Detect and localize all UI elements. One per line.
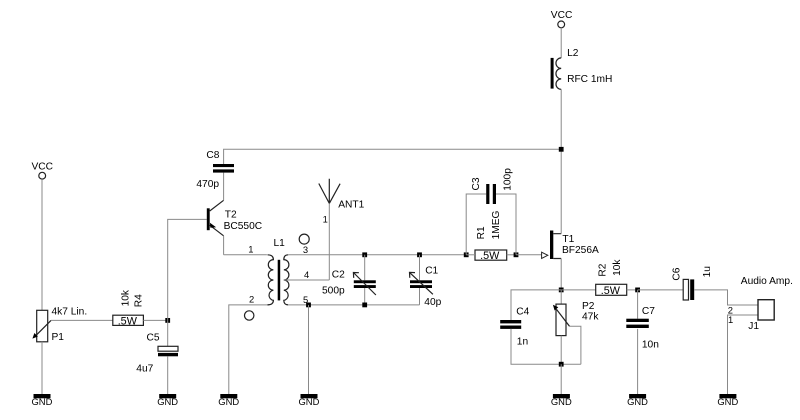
wire source node to R2	[561, 289, 596, 291]
svg-text:BF256A: BF256A	[562, 245, 599, 256]
open terminal circle pin 2	[245, 311, 254, 320]
wire J1 pin 1 to GND	[728, 315, 759, 394]
svg-text:4u7: 4u7	[136, 364, 153, 375]
wire P1 to GND	[41, 342, 43, 394]
svg-text:10k: 10k	[120, 289, 131, 306]
node R4/C5/T2	[165, 318, 170, 323]
variable capacitor C1	[410, 265, 442, 307]
wire P2 bottom	[560, 336, 562, 365]
svg-text:GND: GND	[627, 396, 648, 407]
svg-text:40p: 40p	[424, 297, 441, 308]
capacitor C8	[196, 150, 234, 190]
svg-text:3: 3	[303, 244, 308, 255]
resistor R4	[113, 289, 145, 327]
svg-text:BC550C: BC550C	[224, 221, 263, 232]
svg-text:1: 1	[728, 314, 733, 325]
resistor R2	[596, 259, 627, 297]
node R1 right	[514, 252, 519, 257]
wire C7 branch	[637, 290, 639, 394]
capacitor C6	[671, 266, 713, 300]
svg-text:R4: R4	[133, 294, 144, 307]
svg-text:4: 4	[304, 269, 309, 280]
wire R2 to node	[627, 289, 638, 291]
wire C5 to GND	[167, 356, 169, 394]
svg-text:.5W: .5W	[480, 250, 500, 262]
wire C6 to J1 pin 2	[694, 290, 758, 305]
wire node to T2 base	[168, 219, 207, 320]
svg-text:C8: C8	[206, 150, 219, 161]
connector J1	[728, 276, 793, 332]
svg-text:P2: P2	[582, 301, 595, 312]
wire P2 top	[560, 290, 562, 304]
node C1 top	[417, 252, 422, 257]
node C2 bottom	[362, 303, 367, 308]
supply VCC left	[32, 162, 54, 180]
svg-text:T1: T1	[562, 234, 574, 245]
transistor T2	[207, 200, 262, 236]
wire source node to C4	[511, 290, 561, 320]
svg-text:T2: T2	[225, 210, 237, 221]
svg-text:GND: GND	[299, 396, 320, 407]
svg-text:1MEG: 1MEG	[491, 210, 502, 239]
svg-text:4k7 Lin.: 4k7 Lin.	[52, 307, 88, 318]
svg-text:ANT1: ANT1	[338, 200, 364, 211]
wire P1 wiper to R4	[51, 319, 113, 321]
svg-text:2: 2	[249, 294, 254, 305]
svg-text:R2: R2	[598, 263, 609, 276]
svg-text:C5: C5	[147, 333, 160, 344]
svg-text:C4: C4	[516, 306, 529, 317]
inductor L2	[551, 48, 613, 90]
wire emitter to L1 pin 1	[224, 254, 267, 256]
wire T1 source down	[560, 259, 562, 290]
svg-text:1u: 1u	[702, 266, 713, 277]
capacitor C7	[626, 306, 659, 351]
wire node to GND	[560, 364, 562, 394]
capacitor C3	[471, 168, 513, 204]
svg-text:VCC: VCC	[551, 10, 573, 21]
svg-text:C7: C7	[642, 306, 655, 317]
svg-text:GND: GND	[218, 396, 239, 407]
wire C1 branch	[419, 255, 421, 305]
wire node to C6	[638, 289, 684, 291]
capacitor C5	[136, 333, 178, 375]
wire L2 to T1 drain	[560, 89, 562, 233]
svg-text:1n: 1n	[517, 336, 528, 347]
ground under C7	[627, 394, 648, 407]
svg-text:GND: GND	[157, 396, 178, 407]
node R1 left	[464, 252, 469, 257]
svg-text:J1: J1	[748, 321, 759, 332]
wire R1 left stub	[466, 254, 475, 256]
ground under C5	[157, 394, 178, 407]
svg-text:47k: 47k	[582, 312, 599, 323]
svg-text:100p: 100p	[502, 168, 513, 191]
main rail L1 pin3 to R1	[288, 254, 466, 256]
ground under P1	[32, 394, 53, 407]
wire L1 pin 5 bottom rail	[288, 304, 419, 306]
wire antenna down to pin 4	[328, 203, 330, 280]
wire L1 pin 4 to antenna	[284, 279, 330, 281]
svg-text:1: 1	[248, 244, 253, 255]
svg-text:500p: 500p	[322, 286, 345, 297]
svg-text:L1: L1	[274, 238, 286, 249]
wire R4 to node	[143, 319, 167, 321]
svg-text:C2: C2	[332, 270, 345, 281]
svg-text:10k: 10k	[612, 259, 623, 276]
wire pin5 to GND	[308, 305, 310, 394]
svg-text:C6: C6	[671, 267, 682, 280]
svg-text:10n: 10n	[642, 340, 659, 351]
node top rail	[559, 147, 564, 152]
wire gate rail	[516, 254, 542, 256]
antenna ANT1	[319, 179, 365, 225]
resistor R1	[475, 210, 507, 262]
wire C4 bottom to rail	[511, 329, 581, 364]
svg-text:GND: GND	[32, 396, 53, 407]
node pin5	[306, 303, 311, 308]
potentiometer P1	[32, 307, 87, 344]
svg-text:Audio Amp.: Audio Amp.	[741, 276, 793, 287]
node bottom rail	[559, 362, 564, 367]
node R2/C7/C6	[635, 288, 640, 293]
wire P2 wiper return	[570, 326, 581, 364]
wire C3 bridge	[466, 194, 516, 255]
wire VCC right to L2	[560, 28, 562, 58]
svg-text:R1: R1	[476, 226, 487, 239]
svg-text:L2: L2	[567, 48, 579, 59]
svg-text:RFC 1mH: RFC 1mH	[567, 74, 612, 85]
svg-text:GND: GND	[717, 396, 738, 407]
ground under J1	[717, 394, 738, 407]
variable capacitor C2	[322, 270, 376, 297]
svg-text:GND: GND	[551, 396, 572, 407]
wire VCC left to P1	[41, 179, 43, 310]
supply VCC right	[551, 10, 573, 28]
wire node to C5	[167, 320, 169, 346]
open terminal circle pin 3	[299, 234, 309, 244]
node C2 top	[362, 252, 367, 257]
wire R1 right stub	[507, 254, 516, 256]
wire T2 emitter down	[223, 236, 225, 255]
svg-text:C1: C1	[425, 265, 438, 276]
svg-text:VCC: VCC	[32, 162, 54, 173]
svg-text:P1: P1	[52, 332, 65, 343]
ground under L1 pin 2	[218, 394, 239, 407]
ground under L1 pin 5	[299, 394, 320, 407]
svg-text:.5W: .5W	[601, 285, 621, 297]
wire C8 to top rail	[224, 149, 562, 164]
ground under P2	[551, 394, 572, 407]
svg-text:C3: C3	[471, 177, 482, 190]
wire L1 pin 2 to GND	[229, 305, 269, 394]
wire C2 branch	[364, 255, 366, 305]
svg-text:.5W: .5W	[118, 316, 138, 328]
transformer L1	[268, 238, 289, 305]
svg-text:470p: 470p	[196, 179, 219, 190]
node T1 source	[559, 288, 564, 293]
capacitor C4	[500, 306, 529, 347]
wire T2 collector to C8	[223, 173, 225, 201]
svg-text:1: 1	[323, 214, 328, 225]
transistor T1	[542, 231, 599, 260]
potentiometer P2	[553, 301, 599, 336]
